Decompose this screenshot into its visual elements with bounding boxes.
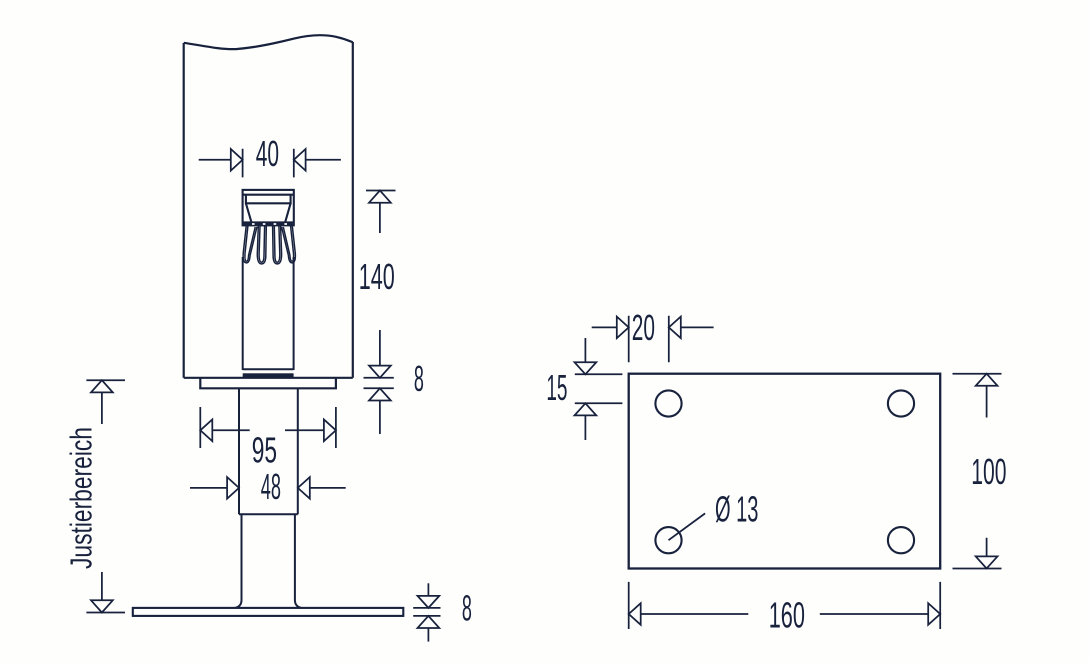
svg-text:40: 40 [256, 133, 279, 174]
hole bottom-right [888, 527, 914, 553]
spring prongs [243, 226, 295, 264]
svg-text:15: 15 [546, 367, 567, 408]
svg-text:8: 8 [414, 358, 424, 399]
dim 40 [199, 149, 341, 178]
cap crimp band [243, 222, 293, 226]
dim 100 [953, 374, 1002, 569]
inner tube bottom band [243, 373, 294, 377]
dim 8 lower [413, 583, 440, 641]
svg-text:100: 100 [971, 451, 1006, 492]
upper plate [200, 378, 336, 389]
dim 140 [366, 191, 396, 378]
svg-text:Justierbereich: Justierbereich [64, 427, 99, 569]
dim 8 upper [364, 378, 394, 434]
svg-text:8: 8 [462, 588, 472, 629]
svg-text:48: 48 [261, 466, 281, 507]
lower tube with flare [236, 514, 301, 608]
svg-text:20: 20 [632, 307, 655, 348]
hole top-right [888, 390, 914, 416]
svg-text:95: 95 [252, 430, 277, 471]
svg-text:140: 140 [359, 256, 395, 297]
base plate (side view) [133, 608, 404, 616]
dim 48 [190, 477, 346, 499]
dim 160 [629, 582, 941, 629]
leader line for hole diameter [669, 513, 706, 540]
svg-text:160: 160 [769, 594, 805, 635]
svg-text:Ø 13: Ø 13 [715, 489, 759, 530]
dim 20 [592, 316, 714, 363]
hole bottom-left [655, 527, 681, 553]
screw cap / nut [243, 190, 294, 225]
hole top-left [655, 390, 681, 416]
wide tube (48) [239, 388, 298, 514]
post outline (side view) [184, 35, 353, 378]
base plate (top view) [629, 374, 941, 569]
dim Justierbereich [86, 380, 125, 612]
dim 15 [575, 338, 623, 440]
dim 95 [200, 407, 336, 448]
inner tube [243, 257, 294, 370]
